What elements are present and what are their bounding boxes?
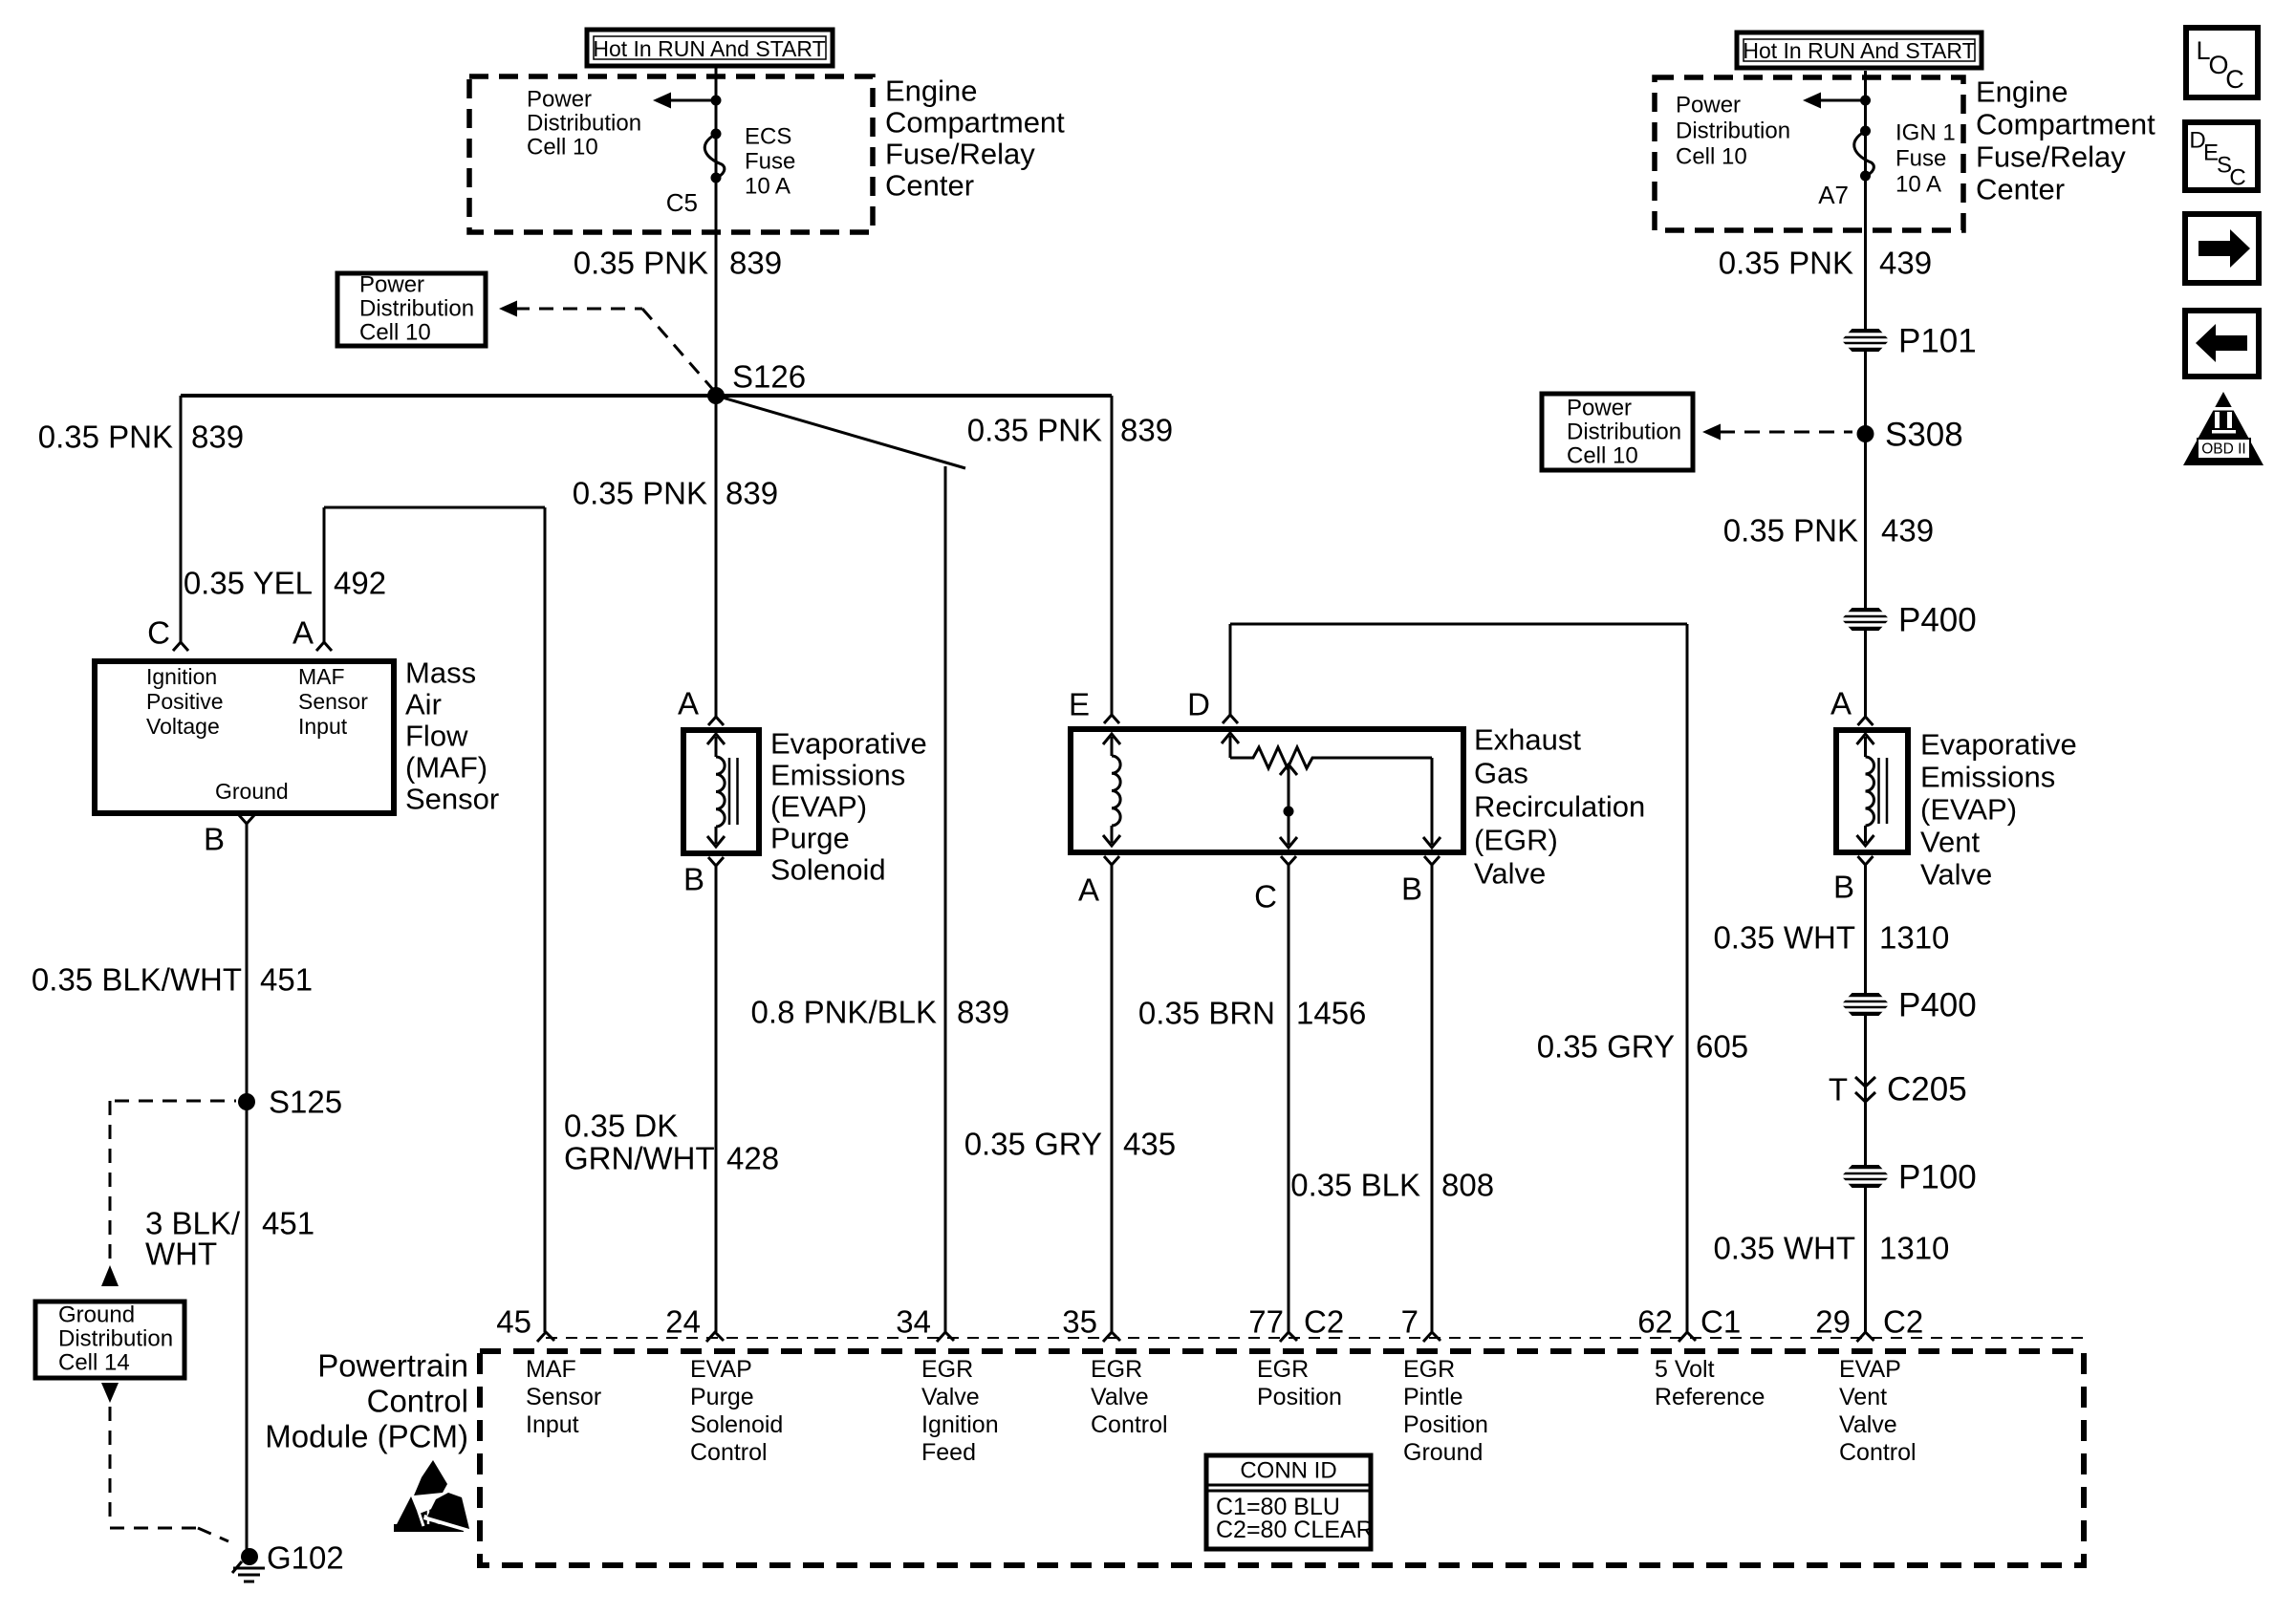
svg-text:(EVAP): (EVAP) xyxy=(770,790,867,824)
svg-text:Cell 10: Cell 10 xyxy=(1676,144,1747,170)
svg-text:Input: Input xyxy=(526,1411,579,1438)
svg-text:C2=80 CLEAR: C2=80 CLEAR xyxy=(1216,1517,1374,1543)
svg-text:0.35 PNK: 0.35 PNK xyxy=(574,246,708,281)
svg-text:C205: C205 xyxy=(1887,1071,1967,1108)
svg-text:Engine: Engine xyxy=(885,75,978,108)
svg-text:Cell 10: Cell 10 xyxy=(359,320,431,346)
svg-text:Distribution: Distribution xyxy=(58,1326,173,1352)
svg-text:0.35 PNK: 0.35 PNK xyxy=(1723,513,1858,549)
svg-text:EVAP: EVAP xyxy=(690,1356,752,1383)
svg-text:Power: Power xyxy=(527,87,592,113)
svg-text:Fuse/Relay: Fuse/Relay xyxy=(1976,140,2126,174)
svg-text:Emissions: Emissions xyxy=(1920,761,2055,794)
svg-text:P400: P400 xyxy=(1898,987,1977,1024)
svg-text:839: 839 xyxy=(957,995,1009,1030)
svg-text:Ignition: Ignition xyxy=(921,1411,999,1438)
svg-text:Control: Control xyxy=(367,1384,468,1419)
svg-text:Cell 14: Cell 14 xyxy=(58,1350,130,1376)
svg-text:808: 808 xyxy=(1441,1168,1494,1203)
svg-text:GRN/WHT: GRN/WHT xyxy=(564,1141,715,1176)
svg-text:Gas: Gas xyxy=(1474,757,1528,790)
svg-text:CONN ID: CONN ID xyxy=(1240,1458,1336,1484)
svg-text:S126: S126 xyxy=(732,359,806,395)
svg-text:605: 605 xyxy=(1696,1029,1748,1065)
svg-text:C2: C2 xyxy=(1883,1304,1923,1340)
svg-text:B: B xyxy=(683,862,704,897)
svg-text:T: T xyxy=(1829,1072,1848,1108)
svg-text:Input: Input xyxy=(298,714,348,739)
svg-text:1456: 1456 xyxy=(1296,996,1366,1031)
svg-text:Position: Position xyxy=(1403,1411,1488,1438)
svg-text:(EVAP): (EVAP) xyxy=(1920,793,2017,827)
svg-text:439: 439 xyxy=(1879,246,1932,281)
svg-text:Engine: Engine xyxy=(1976,75,2069,109)
svg-text:MAF: MAF xyxy=(298,664,345,689)
svg-text:Power: Power xyxy=(359,272,424,298)
svg-text:Cell 10: Cell 10 xyxy=(1567,443,1638,469)
svg-text:0.35 BLK: 0.35 BLK xyxy=(1290,1168,1420,1203)
svg-text:Air: Air xyxy=(405,688,442,721)
svg-text:77: 77 xyxy=(1248,1304,1284,1340)
svg-text:P400: P400 xyxy=(1898,602,1977,639)
svg-text:WHT: WHT xyxy=(145,1237,217,1272)
svg-text:C: C xyxy=(147,615,170,651)
svg-text:10 A: 10 A xyxy=(1895,172,1941,198)
svg-text:A: A xyxy=(1078,872,1099,908)
svg-text:G102: G102 xyxy=(267,1540,344,1576)
svg-text:839: 839 xyxy=(729,246,782,281)
svg-text:Vent: Vent xyxy=(1920,826,1980,859)
svg-text:EGR: EGR xyxy=(1091,1356,1142,1383)
svg-text:Recirculation: Recirculation xyxy=(1474,790,1645,824)
svg-text:Mass: Mass xyxy=(405,656,476,690)
svg-text:A: A xyxy=(292,615,314,651)
svg-text:45: 45 xyxy=(496,1304,531,1340)
svg-text:C: C xyxy=(2229,165,2245,191)
svg-text:Control: Control xyxy=(690,1439,768,1466)
svg-text:E: E xyxy=(1069,687,1090,722)
svg-text:35: 35 xyxy=(1062,1304,1097,1340)
svg-text:0.35 GRY: 0.35 GRY xyxy=(1537,1029,1675,1065)
svg-text:0.35 GRY: 0.35 GRY xyxy=(964,1127,1102,1162)
svg-text:5 Volt: 5 Volt xyxy=(1655,1356,1715,1383)
svg-text:428: 428 xyxy=(726,1141,779,1176)
svg-text:1310: 1310 xyxy=(1879,1231,1949,1266)
svg-text:Sensor: Sensor xyxy=(298,689,368,714)
svg-text:1310: 1310 xyxy=(1879,920,1949,956)
svg-text:Exhaust: Exhaust xyxy=(1474,723,1581,757)
svg-text:B: B xyxy=(1401,872,1422,907)
svg-text:Power: Power xyxy=(1567,396,1632,421)
svg-text:29: 29 xyxy=(1815,1304,1851,1340)
svg-text:Feed: Feed xyxy=(921,1439,976,1466)
svg-text:D: D xyxy=(1187,687,1210,722)
svg-text:0.35 PNK: 0.35 PNK xyxy=(1719,246,1853,281)
svg-text:C: C xyxy=(1254,879,1277,915)
svg-text:Distribution: Distribution xyxy=(359,296,474,322)
svg-text:Module (PCM): Module (PCM) xyxy=(265,1419,468,1454)
svg-text:C5: C5 xyxy=(666,188,698,217)
svg-text:Compartment: Compartment xyxy=(885,106,1065,140)
svg-text:34: 34 xyxy=(896,1304,931,1340)
svg-text:S125: S125 xyxy=(269,1085,342,1120)
svg-text:Fuse: Fuse xyxy=(1895,146,1946,172)
svg-text:451: 451 xyxy=(260,962,313,998)
svg-text:Purge: Purge xyxy=(690,1384,754,1410)
svg-text:(EGR): (EGR) xyxy=(1474,824,1558,857)
svg-text:7: 7 xyxy=(1401,1304,1419,1340)
svg-text:C1: C1 xyxy=(1700,1304,1741,1340)
svg-text:A: A xyxy=(1830,686,1852,721)
svg-text:62: 62 xyxy=(1637,1304,1673,1340)
svg-text:Evaporative: Evaporative xyxy=(770,727,927,761)
svg-text:IGN 1: IGN 1 xyxy=(1895,120,1956,146)
svg-text:10 A: 10 A xyxy=(745,174,791,200)
svg-text:0.8 PNK/BLK: 0.8 PNK/BLK xyxy=(751,995,937,1030)
svg-text:Ground: Ground xyxy=(1403,1439,1483,1466)
svg-text:Evaporative: Evaporative xyxy=(1920,728,2077,762)
svg-text:Ground: Ground xyxy=(215,779,289,804)
svg-text:492: 492 xyxy=(334,566,386,601)
svg-text:Valve: Valve xyxy=(1920,858,1992,892)
svg-text:EGR: EGR xyxy=(1403,1356,1455,1383)
svg-text:Valve: Valve xyxy=(1474,857,1546,891)
svg-text:Fuse/Relay: Fuse/Relay xyxy=(885,138,1035,171)
svg-text:MAF: MAF xyxy=(526,1356,576,1383)
svg-text:S308: S308 xyxy=(1885,417,1963,454)
svg-text:0.35 YEL: 0.35 YEL xyxy=(184,566,313,601)
svg-text:Compartment: Compartment xyxy=(1976,108,2155,141)
svg-text:0.35 PNK: 0.35 PNK xyxy=(38,420,173,455)
svg-text:839: 839 xyxy=(726,476,778,511)
svg-text:Distribution: Distribution xyxy=(1567,420,1681,445)
svg-text:24: 24 xyxy=(665,1304,701,1340)
svg-text:Purge: Purge xyxy=(770,822,850,855)
svg-text:Valve: Valve xyxy=(1091,1384,1149,1410)
svg-text:Positive: Positive xyxy=(146,689,224,714)
svg-text:Valve: Valve xyxy=(1839,1411,1897,1438)
svg-text:Vent: Vent xyxy=(1839,1384,1887,1410)
svg-text:0.35 PNK: 0.35 PNK xyxy=(967,413,1102,448)
svg-text:P100: P100 xyxy=(1898,1159,1977,1196)
svg-text:Ignition: Ignition xyxy=(146,664,217,689)
svg-text:EGR: EGR xyxy=(921,1356,973,1383)
svg-text:839: 839 xyxy=(191,420,244,455)
svg-text:439: 439 xyxy=(1881,513,1934,549)
svg-text:Reference: Reference xyxy=(1655,1384,1765,1410)
svg-text:OBD II: OBD II xyxy=(2201,441,2246,458)
svg-text:Solenoid: Solenoid xyxy=(770,853,886,887)
svg-text:839: 839 xyxy=(1120,413,1173,448)
svg-text:(MAF): (MAF) xyxy=(405,751,487,785)
svg-text:Voltage: Voltage xyxy=(146,714,220,739)
svg-text:Powertrain: Powertrain xyxy=(317,1348,468,1384)
svg-text:Valve: Valve xyxy=(921,1384,980,1410)
svg-text:Fuse: Fuse xyxy=(745,149,795,175)
svg-text:Flow: Flow xyxy=(405,720,468,753)
svg-text:Hot In RUN And START: Hot In RUN And START xyxy=(593,36,825,61)
svg-text:Pintle: Pintle xyxy=(1403,1384,1463,1410)
svg-text:C: C xyxy=(2225,65,2244,94)
svg-text:0.35 DK: 0.35 DK xyxy=(564,1108,678,1144)
svg-text:Solenoid: Solenoid xyxy=(690,1411,783,1438)
svg-text:0.35 WHT: 0.35 WHT xyxy=(1713,1231,1855,1266)
svg-text:P101: P101 xyxy=(1898,323,1977,360)
svg-text:ECS: ECS xyxy=(745,124,791,150)
svg-text:Hot In RUN And START: Hot In RUN And START xyxy=(1743,38,1975,63)
svg-text:A7: A7 xyxy=(1818,181,1849,209)
svg-text:Emissions: Emissions xyxy=(770,759,905,792)
svg-text:Position: Position xyxy=(1257,1384,1342,1410)
svg-text:0.35 BRN: 0.35 BRN xyxy=(1138,996,1275,1031)
svg-text:EVAP: EVAP xyxy=(1839,1356,1901,1383)
svg-text:Sensor: Sensor xyxy=(526,1384,601,1410)
svg-text:0.35 WHT: 0.35 WHT xyxy=(1713,920,1855,956)
svg-text:0.35 BLK/WHT: 0.35 BLK/WHT xyxy=(32,962,242,998)
svg-text:Distribution: Distribution xyxy=(1676,118,1790,144)
svg-text:Center: Center xyxy=(1976,173,2065,206)
svg-text:Control: Control xyxy=(1091,1411,1168,1438)
svg-text:Cell 10: Cell 10 xyxy=(527,135,598,161)
svg-text:0.35 PNK: 0.35 PNK xyxy=(573,476,707,511)
svg-text:A: A xyxy=(678,686,699,721)
svg-text:Control: Control xyxy=(1839,1439,1917,1466)
svg-text:C2: C2 xyxy=(1304,1304,1344,1340)
svg-text:B: B xyxy=(204,822,225,857)
svg-text:Power: Power xyxy=(1676,93,1741,118)
svg-text:451: 451 xyxy=(262,1206,314,1241)
svg-text:Distribution: Distribution xyxy=(527,111,641,137)
svg-text:Ground: Ground xyxy=(58,1302,135,1328)
svg-text:B: B xyxy=(1833,870,1854,905)
svg-text:EGR: EGR xyxy=(1257,1356,1309,1383)
svg-text:435: 435 xyxy=(1123,1127,1176,1162)
svg-text:Center: Center xyxy=(885,169,974,203)
svg-text:Sensor: Sensor xyxy=(405,783,499,816)
